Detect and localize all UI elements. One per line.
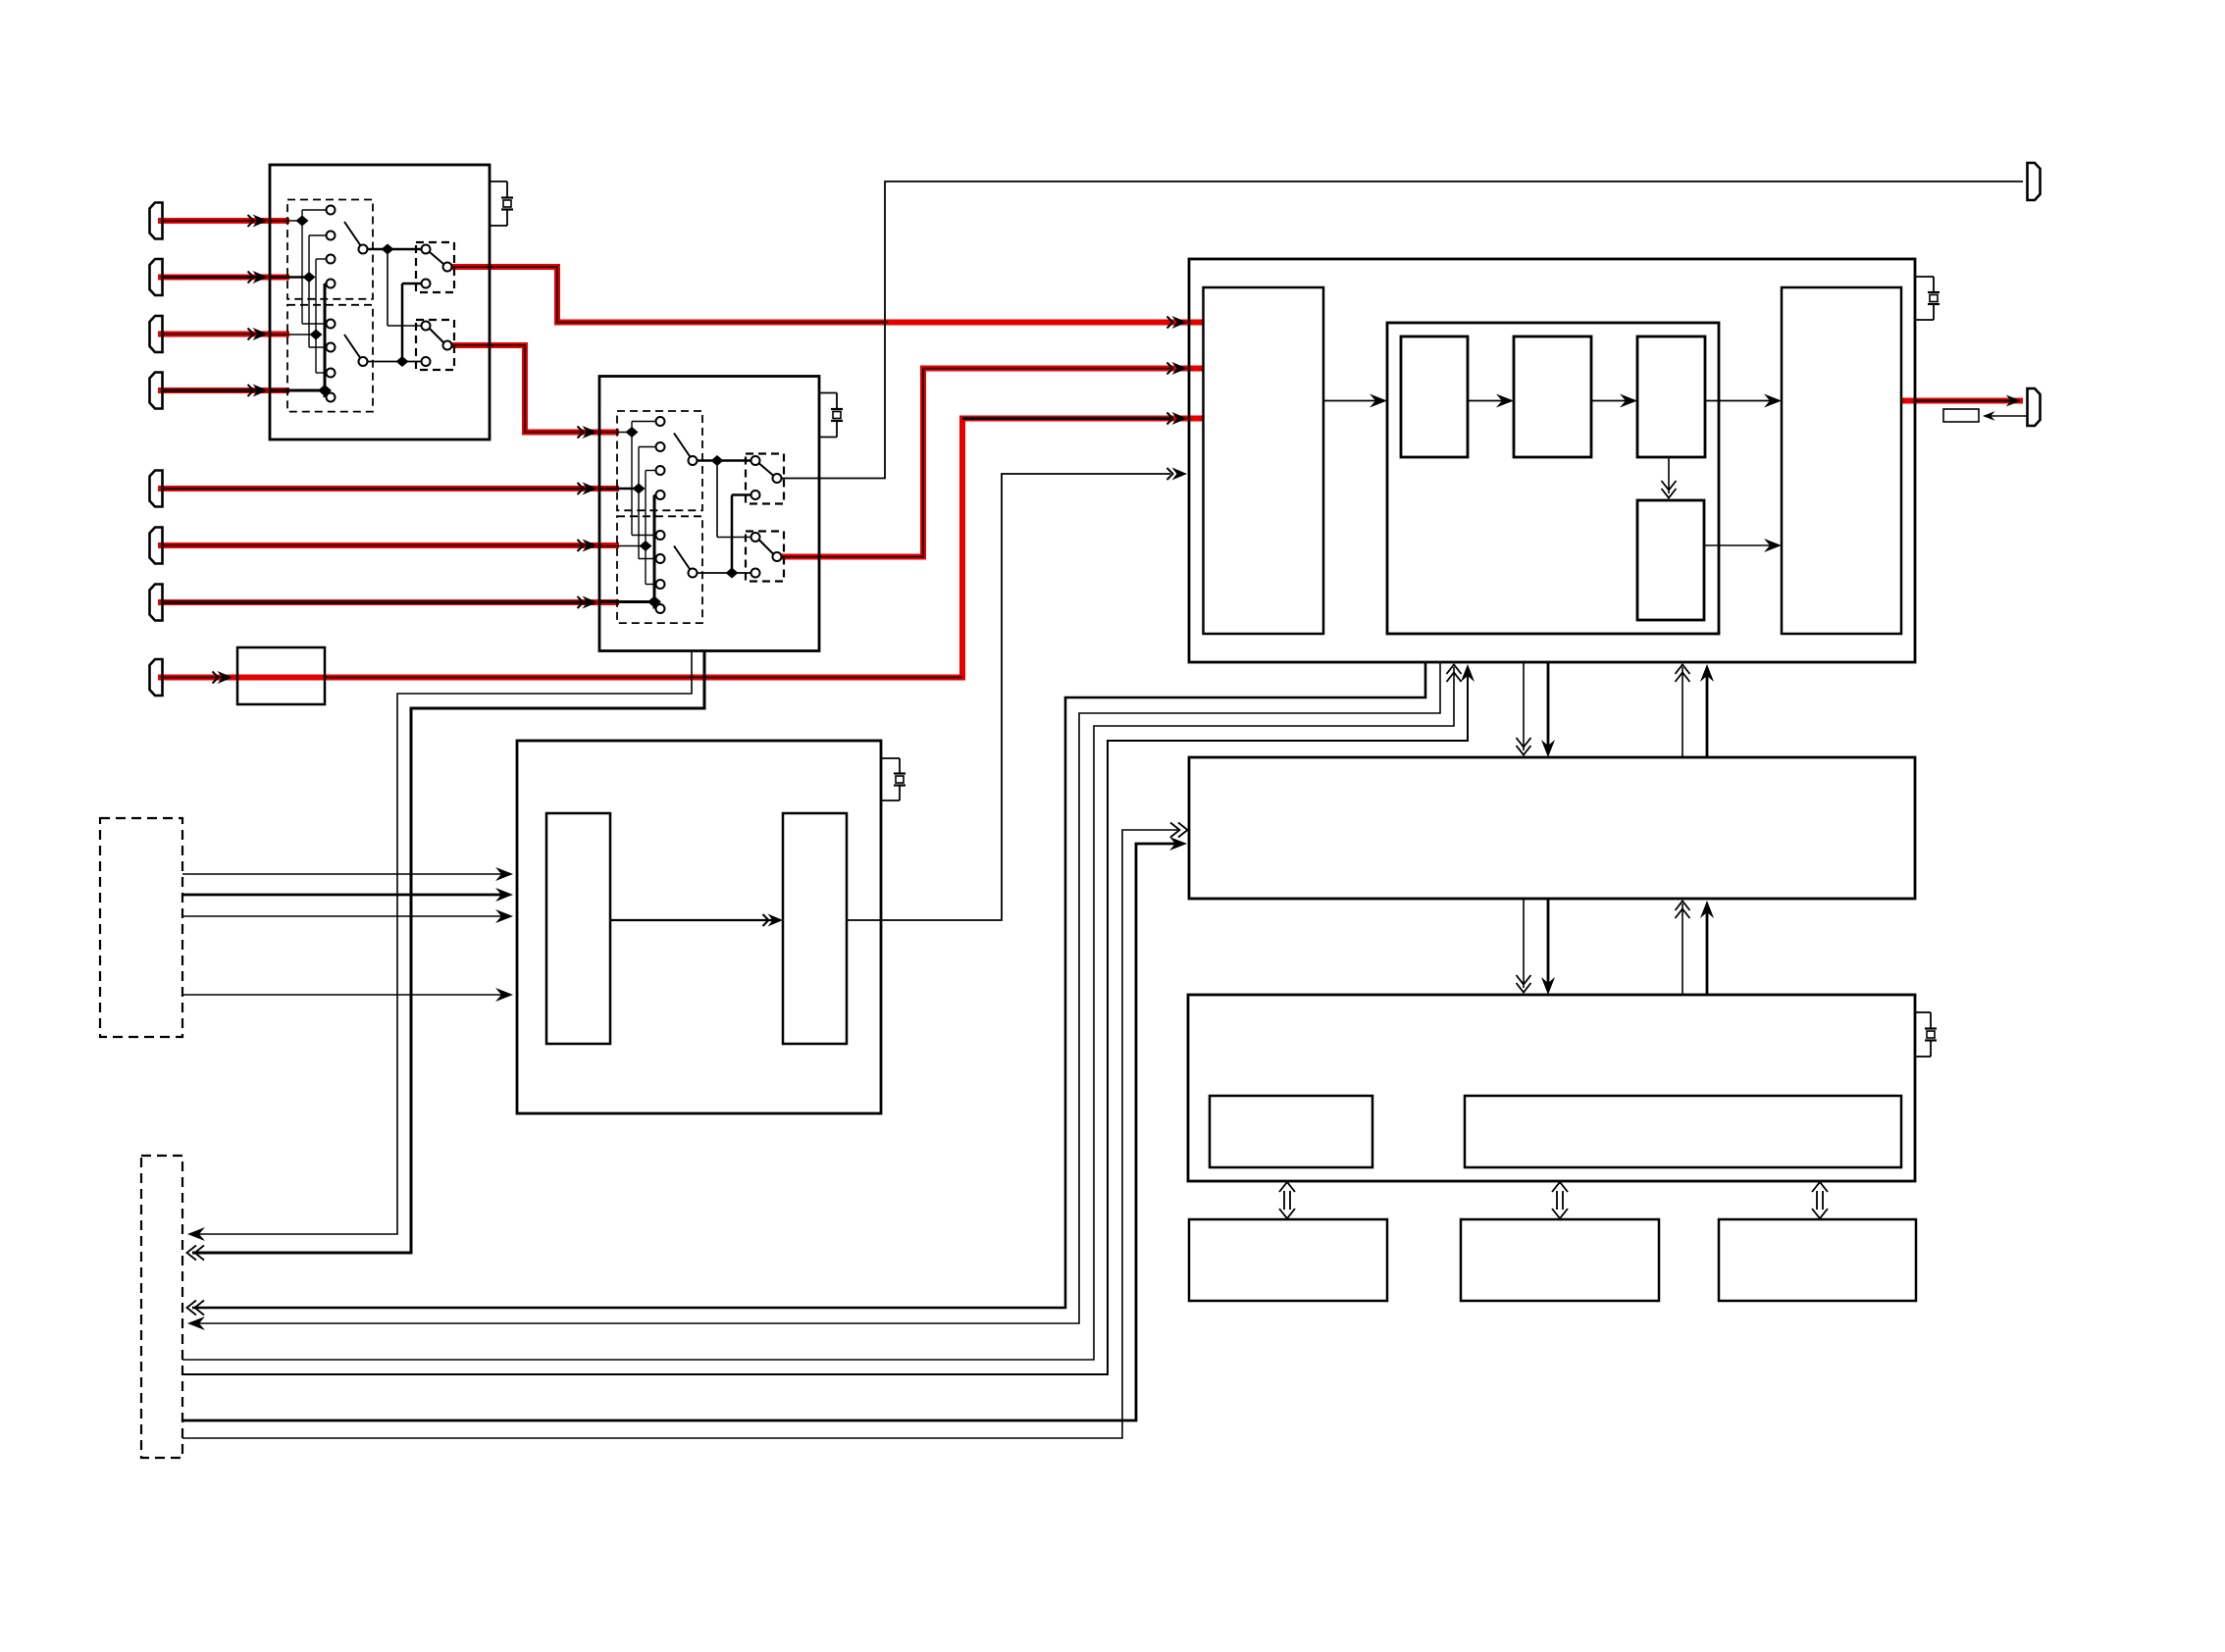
wire J10 return to terminator: [1983, 411, 2027, 421]
crystal X1 on U1: [490, 181, 513, 226]
memory chip block M1: [1189, 1219, 1387, 1301]
arrow U2 out2 into U3 input 2: [1167, 362, 1188, 375]
switch box U2: [599, 377, 819, 651]
memory chip block M2: [1461, 1219, 1659, 1301]
wire U3 bottom stub 1 to P2 (thick): [187, 662, 1426, 1316]
crystal X2 on U2: [819, 393, 843, 438]
wire red U2 output 2 to U3 input 2: [781, 369, 1204, 557]
wire red video-in 3 (J3 to U1): [158, 332, 289, 337]
wire P2 to U5 left (thin): [182, 823, 1188, 1439]
U3 sub-block 2: [1514, 336, 1591, 457]
wire U2 out2 black overlay: [781, 369, 1170, 557]
arrow U3 buffer to core: [1323, 394, 1387, 408]
U3 sub-block 1: [1401, 336, 1468, 457]
U4 left rect: [546, 813, 610, 1044]
crystal X5 on U6: [1915, 1012, 1937, 1057]
wire red video-in 6 (J6 to U2): [158, 542, 619, 548]
connector J3: [150, 316, 163, 352]
wire P2 up line 1 to U3: [182, 665, 1462, 1361]
wire J8 buffer to corner, black overlay: [325, 677, 962, 679]
buffer box A1: [237, 647, 325, 704]
memory block U6: [1188, 995, 1915, 1181]
arrow J4 into U1: [163, 385, 268, 397]
U4 right rect: [783, 813, 847, 1044]
connector J10 (output right): [2028, 388, 2041, 426]
arrow sub3 to output rect: [1705, 394, 1782, 408]
arrow J6 into U2: [163, 540, 597, 552]
U3 input buffer rect: [1204, 287, 1324, 634]
dashed box P2 (bottom left): [141, 1156, 182, 1458]
U6 inner rect 1: [1210, 1096, 1372, 1167]
memory chip block M3: [1719, 1219, 1916, 1301]
connector J9 (top right): [2028, 163, 2041, 200]
U6 inner rect 2: [1465, 1096, 1901, 1167]
connector J6: [150, 528, 163, 564]
wire red U1 output 2 to U2 input 1: [451, 345, 619, 433]
wire P2 to U5 left (thick): [182, 837, 1187, 1420]
wire U2 bottom stub 1 to P2: [187, 651, 692, 1242]
arrow sub2 to sub3: [1591, 394, 1637, 408]
wire U2 out1 to top line and J9: [781, 181, 2023, 479]
arrow sub1 to sub2: [1468, 394, 1514, 408]
wire red video-in 1 (J1 to switch U1): [158, 218, 289, 224]
wire U1 out1 black overlay: [451, 267, 888, 323]
arrow J7 into U2: [163, 596, 597, 609]
double arrow U6-M1: [1279, 1182, 1295, 1218]
bus U6 up to U5 line 2 (thick): [1700, 901, 1714, 995]
U3 sub-block 3: [1637, 336, 1705, 457]
wire P1 line 4 to U4: [182, 988, 513, 1002]
terminator rect at J10: [1943, 409, 1979, 422]
U3 output rect: [1782, 287, 1901, 634]
switch box U1: [270, 165, 490, 439]
arrow J3 into U1: [163, 328, 268, 340]
processor block U3: [1189, 259, 1915, 662]
bus U6 up to U5 line 1: [1676, 902, 1690, 996]
crystal X3 on U3: [1915, 277, 1940, 320]
arrow J8 path into U3 input 3: [962, 412, 1187, 425]
wire red U3 output to jack J10: [1901, 398, 2023, 404]
arrow J8 into buffer A1: [163, 671, 233, 684]
connector J1: [150, 203, 163, 239]
wire U4 output to U3 input 4: [847, 468, 1187, 921]
U3 sub-block 4: [1637, 500, 1704, 620]
arrow J5 into U2: [163, 483, 597, 495]
arrow U3 output to J10: [1915, 395, 2021, 407]
wire P1 line 1 to U4: [182, 867, 513, 881]
bus U5 down to U6 line 1: [1517, 899, 1531, 993]
wire red video-in 2 (J2 to U1): [158, 275, 289, 281]
bus U5 up to U3 line 2 (thick): [1700, 664, 1714, 757]
dashed box P1 (mid left): [100, 818, 182, 1037]
U3 core container: [1387, 323, 1719, 634]
wire U1 out2 black overlay: [451, 345, 593, 433]
connector J7: [150, 585, 163, 621]
connector J8: [150, 659, 163, 696]
bus U5 down to U6 line 2 (thick): [1541, 899, 1555, 995]
connector J4: [150, 373, 163, 409]
arrow U4 left to right rect: [610, 914, 783, 927]
connector J2: [150, 259, 163, 295]
wire red video-in 7 (J7 to U2): [158, 599, 619, 605]
bus U3 down to U5 line 1: [1517, 662, 1531, 755]
wire U3 bottom stub 2 to P2: [187, 662, 1440, 1330]
connector J5: [150, 471, 163, 507]
wire U2 bottom stub 2 to P2 (thick): [187, 651, 705, 1261]
control block U4: [517, 741, 881, 1113]
arrow U1 out2 into U2: [578, 426, 598, 439]
double arrow U6-M2: [1552, 1182, 1568, 1218]
wire red J8 through buffer A1 to processor U3 input 3: [158, 419, 1204, 678]
arrow J2 into U1: [163, 271, 268, 284]
bus U5 up to U3 line 1: [1676, 665, 1690, 758]
crystal X4 on U4: [881, 758, 906, 800]
wire red U1 output 1 to U3 input 1: [451, 267, 1204, 323]
arrow sub3 down to sub4: [1662, 457, 1677, 498]
wire P1 line 2 to U4 (thick): [182, 888, 513, 902]
interface block U5: [1189, 757, 1915, 899]
wire red video-in 5 (J5 to switch U2): [158, 486, 619, 491]
arrow U1 out1 into U3 input 1: [1167, 316, 1188, 329]
arrow J1 into U1: [163, 215, 268, 228]
double arrow U6-M3: [1812, 1182, 1828, 1218]
wire P1 line 3 to U4: [182, 909, 513, 923]
bus U3 down to U5 line 2 (thick): [1541, 662, 1555, 757]
wire P2 up line 2 to U3 (thick): [182, 664, 1475, 1374]
wire red video-in 4 (J4 to U1): [158, 387, 289, 393]
arrow sub4 to output rect: [1704, 539, 1782, 552]
